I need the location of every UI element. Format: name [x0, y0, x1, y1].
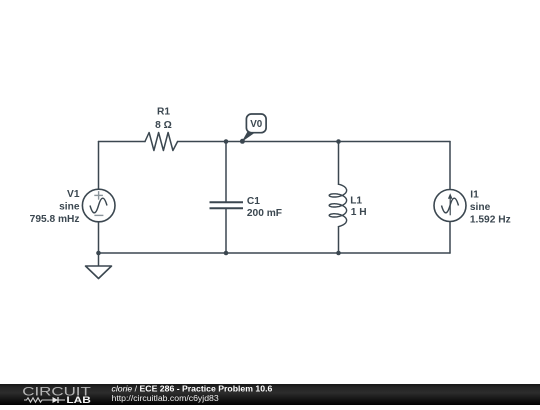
inductor L1 coil: [329, 184, 346, 227]
wire top-left vertical (V1 top to top rail): [98, 142, 100, 190]
svg-text:1 H: 1 H: [351, 207, 367, 218]
svg-text:I1: I1: [470, 190, 479, 201]
svg-text:R1: R1: [157, 107, 170, 118]
wire top rail R1 to node: [178, 141, 450, 143]
wire L1 top lead: [338, 142, 340, 185]
wire V1 bottom to bottom rail: [98, 222, 100, 254]
wire bottom rail: [99, 252, 451, 254]
I1 arrow shaft: [449, 198, 451, 216]
capacitor C1 plates: [210, 202, 244, 208]
svg-text:200 mF: 200 mF: [247, 208, 282, 219]
V1 plus sign: [94, 191, 103, 200]
svg-text:C1: C1: [247, 196, 260, 207]
wire C1 top lead: [225, 142, 227, 202]
footer logo diode: [53, 397, 59, 403]
footer logo diode bar: [57, 397, 59, 403]
V1 minus sign: [94, 214, 103, 216]
footer bar: [0, 384, 540, 405]
footer logo diode lead: [58, 399, 65, 401]
junction node dot (V0 tap): [240, 139, 245, 144]
svg-text:sine: sine: [59, 201, 80, 212]
junction node dot (C1 top): [224, 139, 229, 144]
wire C1 bottom lead: [225, 209, 227, 253]
svg-text:V0: V0: [250, 119, 263, 130]
wire L1 bottom lead: [338, 227, 340, 253]
svg-text:795.8 mHz: 795.8 mHz: [30, 214, 80, 225]
svg-text:LAB: LAB: [66, 395, 90, 405]
wire top rail left segment: [99, 141, 146, 143]
svg-text:L1: L1: [350, 196, 362, 207]
wire right vertical top (to I1): [449, 142, 451, 190]
junction node dot (L1 top): [336, 139, 341, 144]
resistor R1: [145, 133, 178, 151]
junction node dot (C1 bottom): [224, 251, 229, 256]
V1 sine glyph: [90, 198, 107, 213]
junction node dot (L1 bottom): [336, 251, 341, 256]
junction node dot (ground tap): [96, 251, 101, 256]
node flag V0 box: [246, 114, 266, 133]
I1 arrow head: [448, 193, 453, 199]
svg-text:V1: V1: [67, 189, 80, 200]
node flag V0 tail: [242, 132, 256, 142]
I1 sine glyph: [442, 198, 459, 213]
svg-text:http://circuitlab.com/c6yjd83: http://circuitlab.com/c6yjd83: [112, 393, 219, 403]
ground symbol: [86, 266, 112, 279]
svg-text:sine: sine: [470, 202, 491, 213]
footer logo wire with resistor: [24, 398, 53, 402]
current source I1 body: [434, 190, 466, 222]
wire right vertical bottom (I1 to bottom rail): [449, 222, 451, 254]
ground lead: [98, 253, 100, 266]
voltage source V1 body: [82, 189, 115, 222]
svg-text:8 Ω: 8 Ω: [155, 120, 172, 131]
svg-text:1.592 Hz: 1.592 Hz: [470, 215, 511, 226]
